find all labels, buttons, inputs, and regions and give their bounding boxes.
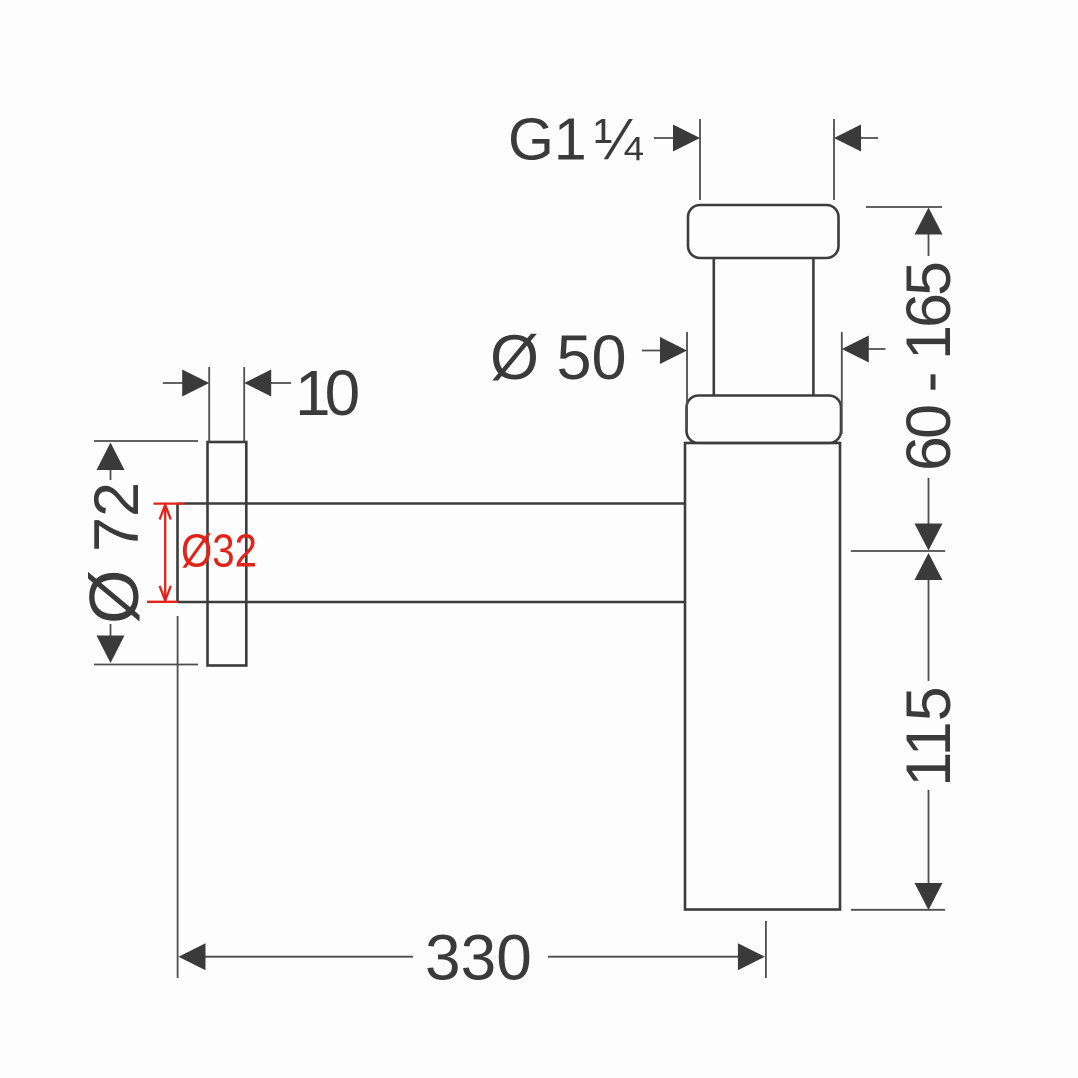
- svg-text:330: 330: [425, 922, 532, 994]
- dim G1 1/4 left arrowhead: [673, 125, 700, 152]
- dim D50 right extension line: [841, 332, 843, 434]
- dim 10 right arrowhead: [244, 370, 271, 397]
- dim D72 up arrowhead: [97, 443, 125, 471]
- dim 60-165 upper stem: [928, 233, 930, 256]
- dim D50 left extension line: [686, 332, 688, 430]
- svg-text:10: 10: [295, 357, 359, 429]
- dim 330 right arrowhead: [738, 943, 765, 970]
- horizontal pipe top line: [178, 502, 686, 505]
- dim D72 bottom extension line: [94, 664, 198, 666]
- svg-text:60 - 165: 60 - 165: [894, 263, 964, 471]
- lower nut: [687, 396, 842, 444]
- dim 10 left arrowhead: [182, 370, 209, 397]
- dim 330 line right segment: [548, 956, 739, 958]
- dim middle tick at pipe centerline: [851, 550, 945, 552]
- dim 10 right extension line: [243, 367, 245, 441]
- dim 115 lower stem: [928, 790, 930, 884]
- dim D72 top extension line: [94, 440, 198, 442]
- dim G1 1/4 right arrow tail: [860, 137, 878, 139]
- horizontal pipe end cap: [176, 504, 179, 603]
- svg-text:Ø 72: Ø 72: [75, 482, 153, 624]
- red dim D32 up arrowhead (open): [160, 505, 171, 520]
- tailpiece pipe right wall: [812, 258, 815, 396]
- red dim D32 vertical line: [164, 505, 166, 601]
- dim 115 upper stem: [928, 579, 930, 681]
- wall flange: [208, 442, 247, 666]
- dim G1 1/4 left arrow tail: [654, 137, 674, 139]
- dim 115 up arrowhead: [915, 553, 943, 580]
- dim D72 down arrowhead: [97, 636, 125, 664]
- svg-text:115: 115: [894, 686, 964, 786]
- dim D50 right arrow tail: [868, 348, 886, 350]
- dim D50 left arrowhead: [660, 337, 687, 364]
- dim 115 down arrowhead: [915, 883, 943, 910]
- dim 330 left extension line: [177, 616, 179, 978]
- dim 10 left extension line: [208, 367, 210, 441]
- dim 60-165 top extension line: [866, 206, 942, 208]
- dim G1 1/4 right arrowhead: [834, 125, 861, 152]
- dim 60-165 lower stem: [928, 478, 930, 525]
- dim D50 right arrowhead: [842, 336, 869, 363]
- dim 330 left arrowhead: [179, 943, 206, 970]
- top nut (tailpiece coupling): [688, 205, 839, 258]
- red dim D32 top tick: [154, 502, 185, 504]
- tailpiece pipe left wall: [712, 258, 715, 396]
- dim 60-165 up arrowhead: [915, 208, 943, 235]
- dim D72 upper stem: [110, 469, 112, 480]
- dim 330 line left segment: [206, 956, 414, 958]
- red dim D32 bottom tick: [147, 601, 178, 603]
- dim bottom tick at body bottom: [851, 909, 945, 911]
- dim G1 1/4 left extension line: [699, 119, 701, 200]
- svg-text:Ø32: Ø32: [181, 525, 257, 577]
- horizontal pipe bottom line: [178, 601, 686, 604]
- svg-text:¼: ¼: [594, 107, 643, 172]
- dim 10 right arrow tail: [271, 382, 292, 384]
- trap body: [685, 443, 840, 910]
- dim 60-165 down arrowhead: [915, 524, 943, 551]
- dim G1 1/4 right extension line: [833, 119, 835, 200]
- dim 330 right extension line: [765, 921, 767, 978]
- svg-text:G1: G1: [508, 107, 587, 173]
- red dim D32 down arrowhead (open): [160, 586, 171, 601]
- dim D50 left arrow tail: [642, 350, 661, 352]
- dim 10 left arrow tail: [163, 382, 183, 384]
- svg-text:Ø 50: Ø 50: [490, 323, 627, 393]
- dim D72 lower stem: [110, 624, 112, 637]
